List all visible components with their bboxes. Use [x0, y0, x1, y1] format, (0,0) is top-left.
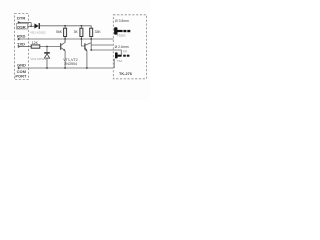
pin DTR wire [18, 22, 31, 24]
svg-text:56K: 56K [56, 30, 63, 34]
node VD2 tap [46, 46, 48, 48]
COM PORT connector dashed box [15, 14, 29, 80]
pin TXD arrow [18, 45, 21, 48]
svg-text:PORT: PORT [15, 74, 27, 79]
svg-text:TK-276: TK-276 [119, 71, 133, 76]
IR head dashed box [113, 15, 146, 79]
wire collector node to IR head lower [91, 49, 113, 51]
transistor VT2 [84, 43, 86, 50]
wire ground into head [113, 59, 115, 68]
wire TXD to resistor [18, 46, 31, 48]
wire inside head to LED [113, 50, 121, 56]
node VT2 emitter/ground [86, 67, 88, 69]
wire VT1 emitter [64, 51, 66, 68]
node VD2/ground [46, 67, 48, 69]
wire 33K down to collector node [90, 37, 92, 51]
svg-text:Ø 3.5mm: Ø 3.5mm [115, 19, 129, 23]
diode VD1 [34, 23, 38, 28]
wire node to diode VD1 [31, 25, 34, 27]
resistor R3 3K [81, 26, 84, 46]
node RXD/VT2 base lead [81, 38, 83, 40]
IR diode BL2 body [115, 52, 118, 58]
svg-text:2N3904: 2N3904 [64, 62, 77, 66]
svg-text:12K: 12K [32, 41, 39, 45]
node RXD/VT1 collector [64, 38, 66, 40]
resistor R2 56K [64, 26, 66, 42]
wire DTR down to node [30, 23, 32, 27]
svg-text:GND: GND [17, 62, 26, 67]
wire top supply rail [40, 26, 91, 28]
node rail/3K [81, 25, 83, 27]
svg-text:TSA: TSA [117, 59, 123, 63]
node RXD/33K lead [90, 38, 92, 40]
pin DSR wire [28, 25, 32, 27]
wire VT2 emitter [86, 51, 88, 69]
pin DSR label box [16, 23, 27, 29]
wire VD2 bottom lead [46, 58, 48, 68]
svg-text:DSR: DSR [17, 24, 26, 29]
diode VD2 [44, 52, 50, 53]
wire GND ground rail [18, 67, 113, 69]
node VT1 emitter/ground [64, 67, 66, 69]
resistor R1 12K [31, 45, 40, 48]
node rail/56K [64, 25, 66, 27]
node lower wire [90, 49, 92, 51]
transistor VT1 [60, 43, 62, 50]
svg-text:VD2 KD522: VD2 KD522 [30, 57, 46, 61]
svg-text:3K: 3K [74, 30, 79, 34]
pin RXD arrow [18, 38, 21, 41]
svg-text:TIR: TIR [123, 49, 128, 53]
svg-text:33K: 33K [95, 30, 102, 34]
pin DTR arrow [18, 21, 21, 24]
IR diode BL1 body [114, 27, 117, 34]
svg-text:VD1 KD522: VD1 KD522 [30, 30, 46, 34]
wire collector node to IR head upper [91, 44, 113, 46]
wire VT1 collector [64, 39, 66, 43]
wire R1 to VT1 base [40, 46, 61, 48]
resistor R4 33K [90, 28, 93, 36]
wire VD2 top lead [46, 47, 48, 53]
svg-text:DTR: DTR [17, 16, 25, 21]
pin GND arrow [18, 67, 21, 70]
svg-text:FD263: FD263 [117, 33, 126, 37]
node DTR/DSR junction [30, 25, 32, 27]
wire RXD line [18, 38, 113, 40]
